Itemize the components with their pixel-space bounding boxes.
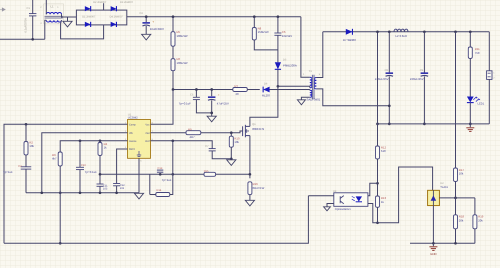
wire snubber C top lead <box>277 17 279 33</box>
wire HV bulk rail <box>127 16 301 18</box>
capacitor CX1 X-cap <box>29 14 36 16</box>
wire C7 to ground node <box>212 151 231 159</box>
junction snubber C <box>277 15 280 18</box>
capacitor C10 <box>76 167 84 169</box>
junction R18/GND <box>454 242 457 245</box>
wire sense loop left <box>149 174 151 194</box>
svg-text:100k/1W: 100k/1W <box>177 34 188 38</box>
wire C10 top lead <box>79 141 81 168</box>
ground GND port output <box>466 128 474 132</box>
junction source/sense <box>249 173 252 176</box>
svg-text:10k: 10k <box>29 144 34 148</box>
svg-text:C1: C1 <box>27 7 31 10</box>
wire opto collector <box>308 195 333 197</box>
wire R5 top lead <box>172 17 174 32</box>
svg-text:UC3842: UC3842 <box>128 116 138 119</box>
resistor R6 <box>171 59 175 71</box>
op-amp U1 UC3842 body <box>128 120 151 159</box>
wire sense loop R left <box>150 194 156 196</box>
svg-text:IRF840 N: IRF840 N <box>252 127 264 131</box>
svg-text:C3: C3 <box>18 165 22 168</box>
resistor R4 <box>98 143 102 156</box>
wire pulldown top lead <box>230 133 232 138</box>
ground gate pulldown <box>227 160 236 166</box>
resistor R15 sense series <box>204 172 216 176</box>
inductor L2 <box>394 29 408 32</box>
svg-text:100k/1W: 100k/1W <box>177 61 188 65</box>
wire IC gnd pin <box>138 158 140 193</box>
resistor R3 <box>58 152 62 166</box>
wire LED to return rail <box>469 103 471 124</box>
junction sense/Isense riser <box>171 173 174 176</box>
wire Isense riser <box>172 141 174 175</box>
wire C5 top lead <box>195 90 197 98</box>
svg-text:220uF/25V: 220uF/25V <box>410 77 424 81</box>
wire secondary top lead <box>316 32 322 78</box>
svg-text:+: + <box>152 20 154 24</box>
svg-text:103: 103 <box>103 188 108 191</box>
junction Isense/RC <box>171 139 174 142</box>
svg-text:C5: C5 <box>190 94 194 97</box>
choke L1 top winding <box>46 12 61 14</box>
wire R6 to Vcc rail <box>172 71 174 90</box>
wire Comp feedback rail <box>4 124 128 243</box>
wire R13 bottom lead <box>377 207 379 223</box>
wire TL431 anode <box>432 206 434 244</box>
optocoupler U3 body <box>334 193 368 207</box>
wire RtCt pin <box>117 149 128 184</box>
wire C11 bottom lead <box>99 186 101 192</box>
svg-text:Comp: Comp <box>129 124 136 127</box>
svg-text:RL207: RL207 <box>262 93 271 97</box>
junction LED resistor <box>469 30 472 33</box>
wire output V+ rail <box>323 31 490 33</box>
wire R2 top lead <box>25 124 27 141</box>
wire R4 to C11 <box>99 156 101 185</box>
regulator U2 TL431 symbol <box>431 195 437 200</box>
transistor Q1 IRF840 <box>243 125 250 138</box>
junction feedback chain/V+ <box>376 30 379 33</box>
svg-text:150k/1W: 150k/1W <box>258 30 269 34</box>
wire output return rail <box>378 123 490 125</box>
junction C8 <box>388 30 391 33</box>
capacitor C11 <box>97 184 104 186</box>
svg-text:Vref: Vref <box>145 140 150 143</box>
wire C4 top lead <box>211 90 213 97</box>
svg-text:Rt/Ct: Rt/Ct <box>129 148 135 151</box>
pin label Gnd glyph <box>137 151 141 156</box>
capacitor C6 snubber <box>274 33 281 35</box>
diode D6 RL207 <box>263 87 269 93</box>
svg-text:4k7: 4k7 <box>52 157 57 161</box>
junction R2 chain <box>25 123 28 126</box>
junction secondary return <box>388 104 391 107</box>
svg-text:D3 2N4007: D3 2N4007 <box>120 1 134 4</box>
junction pulldown/filter gnd <box>230 157 233 160</box>
wire C12 bottom lead <box>116 186 118 193</box>
wire Vcc rail <box>173 89 233 91</box>
wire opto LED cathode to TL431 <box>368 167 433 223</box>
svg-text:510: 510 <box>381 149 386 153</box>
capacitor C3 comp <box>21 167 32 169</box>
wire earth stem <box>67 17 69 21</box>
ground aux winding <box>297 100 305 105</box>
diode D3 <box>85 22 91 27</box>
svg-text:10k: 10k <box>459 172 464 176</box>
wire C9 bottom lead <box>423 76 425 124</box>
wire R17 bottom lead <box>455 182 457 198</box>
wire drain <box>250 86 278 126</box>
diode D7 SB360 <box>346 29 353 35</box>
capacitor C13 spike filter <box>157 170 163 172</box>
svg-text:0R47/1W: 0R47/1W <box>253 186 265 190</box>
junction gate pulldown <box>230 131 233 134</box>
wire choke bottom-left lead <box>45 20 47 39</box>
wire Vfb rail <box>42 133 128 193</box>
wire C8 top lead <box>388 32 390 73</box>
capacitor C9 220uF/25V <box>421 72 429 76</box>
junction LED cathode net <box>376 221 379 224</box>
bridge rectifier outline <box>76 10 126 25</box>
wire feedback chain top <box>377 32 379 146</box>
junction C9 <box>423 30 426 33</box>
wire secondary return <box>316 89 389 106</box>
wire to opto LED anode <box>368 183 378 196</box>
wire C10 bottom lead <box>79 170 81 193</box>
junction R4 <box>99 139 102 142</box>
capacitor C5 <box>193 97 200 99</box>
capacitor C4 47uF/25V <box>208 96 216 100</box>
wire divider top chain <box>455 32 457 168</box>
junction C8/return rail <box>388 123 391 126</box>
wire bulk cap top lead <box>145 17 147 22</box>
wire R19 top lead <box>474 198 476 215</box>
svg-text:10k: 10k <box>234 140 239 144</box>
svg-text:C7: C7 <box>205 145 209 148</box>
wire IC ground rail <box>26 192 139 194</box>
wire C4 bottom lead <box>211 100 213 116</box>
svg-text:0.1uF/275V: 0.1uF/275V <box>23 18 27 33</box>
svg-text:C8: C8 <box>385 69 389 72</box>
ground Vcc filter <box>207 116 216 122</box>
svg-text:R14: R14 <box>157 189 162 192</box>
wire X-cap bottom lead <box>32 16 34 39</box>
svg-text:+: + <box>218 93 220 97</box>
junction C5 <box>195 88 198 91</box>
svg-text:R15: R15 <box>204 170 209 173</box>
wire R11 to LED <box>469 59 471 97</box>
junction feedback chain/return <box>376 123 379 126</box>
capacitor C12 timing <box>113 184 120 186</box>
wire bulk cap bottom lead <box>145 26 147 34</box>
resistor R12 <box>376 146 380 159</box>
wire sense loop right <box>170 174 173 194</box>
capacitor C7 sense filter <box>209 149 216 151</box>
wire C8 bottom lead <box>388 76 390 124</box>
wire snubber to clamp diode <box>277 35 279 62</box>
junction LED/return rail <box>469 123 472 126</box>
junction bulk cap <box>145 15 148 18</box>
resistor R5 <box>171 32 175 47</box>
wire connector bottom lead <box>488 79 490 124</box>
svg-text:103: 103 <box>120 187 125 190</box>
wire secondary GND net <box>410 242 475 244</box>
svg-text:Vfb: Vfb <box>129 132 133 135</box>
diode D5 P6KE200A <box>275 62 281 69</box>
resistor R7 <box>233 88 248 92</box>
transformer T1 secondary winding <box>314 77 316 88</box>
svg-text:C9: C9 <box>420 69 424 72</box>
wire Isense pin <box>151 141 213 149</box>
junction C4/C5 bottom <box>210 112 213 115</box>
junction startup chain <box>172 15 175 18</box>
svg-text:C13: C13 <box>158 167 163 170</box>
resistor R13 LED parallel <box>376 196 380 207</box>
wire bulk rail to primary top <box>301 17 310 78</box>
svg-text:10uF/400V: 10uF/400V <box>150 27 164 31</box>
wire aux top stub <box>309 89 311 92</box>
svg-text:LED1: LED1 <box>478 103 485 106</box>
svg-text:47uF/25V: 47uF/25V <box>217 102 229 106</box>
resistor R9 gate <box>186 131 201 135</box>
wire neutral bottom rail <box>0 38 45 40</box>
svg-text:Q1: Q1 <box>252 123 256 126</box>
svg-text:470uF/25V: 470uF/25V <box>375 77 389 81</box>
svg-text:U3: U3 <box>333 190 337 193</box>
wire D6 to aux winding <box>270 89 310 91</box>
ground IC <box>134 193 143 199</box>
wire aux bottom lead <box>301 97 309 100</box>
svg-text:750: 750 <box>475 51 480 55</box>
connector J1 output <box>487 71 492 80</box>
svg-text:Tp=1uF: Tp=1uF <box>3 170 13 174</box>
wire Rsense bottom lead <box>249 195 251 201</box>
junction C4 <box>210 88 213 91</box>
wire Vcc pin to Vcc rail <box>151 90 174 125</box>
svg-text:R7: R7 <box>235 84 239 88</box>
junction divider top <box>454 30 457 33</box>
svg-text:L2 3.3uH: L2 3.3uH <box>396 34 407 38</box>
wire primary bottom to drain node <box>278 86 310 88</box>
junction sense wire left <box>99 173 102 176</box>
diode D2 <box>111 6 117 11</box>
resistor R8 snubber <box>252 28 256 41</box>
wire GND port stem secondary <box>432 243 434 246</box>
svg-text:U2: U2 <box>440 182 444 185</box>
wire gnd rail to outer loop <box>59 193 61 244</box>
resistor R16 current sense <box>248 182 252 195</box>
junction drain node <box>277 85 280 88</box>
transformer T1 core <box>312 75 314 99</box>
svg-text:Out: Out <box>145 132 149 135</box>
junction ref divider <box>454 197 457 200</box>
resistor R10 gate pulldown <box>229 136 233 147</box>
svg-text:TL431: TL431 <box>440 186 448 189</box>
capacitor C8 470uF/25V <box>386 72 394 76</box>
resistor R19 divider lower 2 <box>473 215 477 229</box>
wire R18 bottom lead <box>455 229 457 244</box>
svg-text:D2 2N4007: D2 2N4007 <box>93 1 107 4</box>
junction TL431 anode/GND <box>432 242 435 245</box>
junction R3/ground rail <box>59 191 62 194</box>
wire opto emitter <box>327 204 334 207</box>
junction Vfb-chain/gnd rail <box>40 191 43 194</box>
wire C5 bottom <box>196 100 211 113</box>
junction C12/gnd rail <box>115 191 118 194</box>
svg-text:20k: 20k <box>478 218 483 222</box>
wire clamp to drain node <box>277 70 279 87</box>
junction outer loop <box>59 242 62 245</box>
diode D1 <box>85 6 91 11</box>
wire R2 to C3 <box>25 155 27 167</box>
wire choke top-left lead <box>45 0 47 14</box>
capacitor C2 bulk 10uF/400V <box>142 22 150 26</box>
wire snubber R top lead <box>253 17 255 28</box>
wire choke to bridge AC1 <box>62 14 77 17</box>
ground bulk cap <box>142 34 151 40</box>
svg-text:D1 2N4007: D1 2N4007 <box>82 16 96 19</box>
svg-text:D5: D5 <box>283 59 287 62</box>
wire R3 bottom lead <box>59 166 61 193</box>
optocoupler U3 LED <box>352 196 362 201</box>
choke L1 core <box>45 16 63 18</box>
wire C3 bottom lead <box>25 169 27 193</box>
wire R4 top lead <box>99 141 101 143</box>
wire pulldown bottom lead <box>230 147 232 160</box>
wire source <box>249 136 251 179</box>
svg-text:D4 2N4007: D4 2N4007 <box>110 16 124 19</box>
wire Out pin to gate resistor <box>151 132 187 134</box>
svg-text:Tp=0.1uF: Tp=0.1uF <box>179 102 191 106</box>
svg-text:SADF0401: SADF0401 <box>307 98 321 102</box>
wire R19 bottom lead <box>474 229 476 244</box>
junction C10/gnd rail <box>79 191 82 194</box>
svg-text:T1: T1 <box>309 69 313 73</box>
junction C13/sense wire <box>159 173 162 176</box>
svg-text:222/1kV: 222/1kV <box>282 34 292 38</box>
svg-text:D6: D6 <box>264 83 268 86</box>
wire C9 top lead <box>423 32 425 73</box>
wire R12 to R13/opto <box>377 159 379 196</box>
choke L1 body outline <box>44 4 64 24</box>
choke L1 bottom winding <box>46 20 61 22</box>
wire R7 to D6 <box>247 89 259 91</box>
junction C11/gnd rail <box>99 191 102 194</box>
port AC input arrow <box>0 8 5 11</box>
wire R18 top lead <box>455 198 457 215</box>
diode D4 <box>111 22 117 27</box>
junction opto anode <box>376 182 379 185</box>
svg-text:C2: C2 <box>140 12 144 15</box>
svg-text:D7 SB360: D7 SB360 <box>343 38 356 42</box>
junction C10 <box>79 139 82 142</box>
svg-text:C10: C10 <box>81 164 86 167</box>
resistor R17 divider upper <box>454 168 458 182</box>
LED LED1 <box>467 97 480 103</box>
svg-text:4R7: 4R7 <box>190 135 196 139</box>
wire R11 top lead <box>469 32 471 47</box>
wire bridge top-mid lead <box>103 3 105 10</box>
junction snubber R <box>253 15 256 18</box>
svg-text:GND: GND <box>430 252 436 256</box>
wire TL431 ref <box>439 197 475 199</box>
svg-text:20: 20 <box>236 92 240 96</box>
junction C9/return rail <box>423 123 426 126</box>
wire outer feedback loop <box>4 196 308 244</box>
ground opto emitter <box>324 207 331 211</box>
svg-text:R9: R9 <box>188 127 192 131</box>
wire snubber R bottom <box>254 40 278 50</box>
wire TL431 cathode through-line <box>432 190 434 205</box>
junction Vcc rail left <box>172 88 175 91</box>
ground earth at bridge input <box>63 21 72 27</box>
regulator U2 TL431 body <box>428 190 440 205</box>
wire Isense-div rail <box>60 141 127 152</box>
wire R5-R6 <box>172 46 174 59</box>
wire connector top lead <box>488 32 490 71</box>
wire GND port stem <box>469 124 471 127</box>
svg-text:P6KE200A: P6KE200A <box>283 64 297 68</box>
resistor R11 <box>468 47 472 59</box>
wire current sense <box>100 173 250 175</box>
wire X-cap top lead <box>32 0 34 14</box>
resistor R2 <box>24 142 28 156</box>
svg-text:L1: L1 <box>51 4 55 8</box>
svg-text:Isense: Isense <box>129 140 137 143</box>
svg-text:Tp=0.1uF: Tp=0.1uF <box>85 170 97 174</box>
svg-text:Tp=1uF: Tp=1uF <box>162 178 172 182</box>
svg-text:20k: 20k <box>459 218 464 222</box>
resistor R14 <box>156 193 170 197</box>
optocoupler U3 phototransistor <box>340 196 344 204</box>
svg-text:Optoisolator1: Optoisolator1 <box>335 208 351 211</box>
ground GND port secondary <box>429 247 437 251</box>
transformer T1 aux winding <box>310 90 312 97</box>
junction X-cap/neutral <box>31 38 34 41</box>
wire choke to bridge AC2 <box>61 20 104 39</box>
resistor R18 divider lower <box>454 215 458 229</box>
transformer T1 primary winding <box>310 77 312 88</box>
wire gate drive <box>201 131 243 133</box>
ground current sense <box>245 200 254 206</box>
